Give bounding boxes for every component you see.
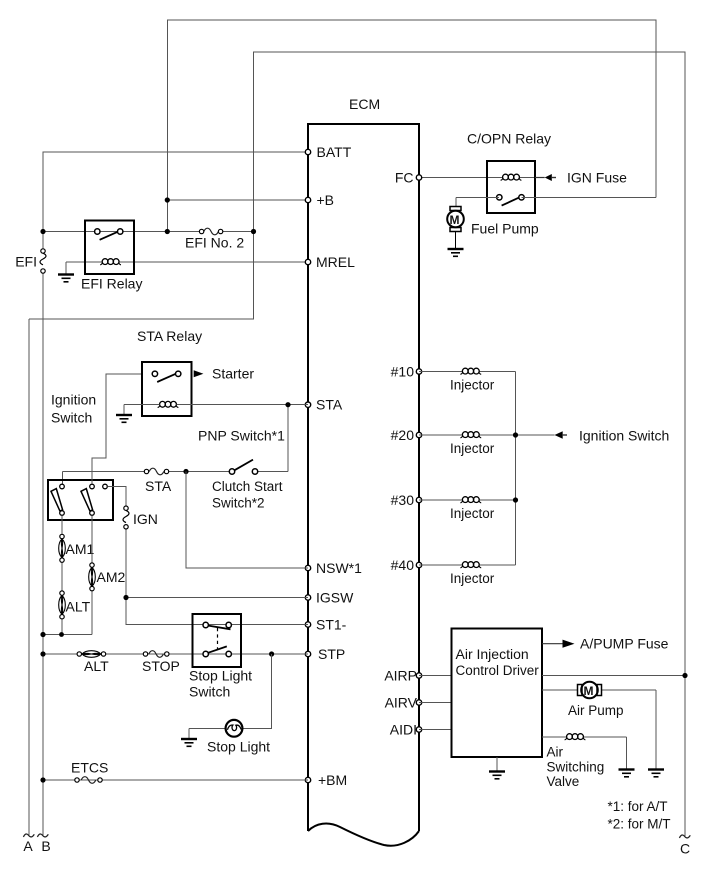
ground AICD — [496, 757, 498, 771]
ground valve — [619, 770, 635, 777]
terminals ECM left — [305, 149, 310, 782]
ground fuel pump — [448, 249, 464, 256]
svg-text:Switch: Switch — [51, 410, 92, 426]
motor Air Pump — [578, 682, 602, 699]
svg-text:M: M — [584, 684, 594, 698]
svg-text:STOP: STOP — [142, 658, 180, 674]
junction IGSW — [123, 595, 128, 600]
wire STA to clutch branch — [287, 405, 289, 472]
relay EFI Relay box — [85, 221, 134, 275]
svg-text:Fuel Pump: Fuel Pump — [471, 221, 539, 237]
wire IGN branch — [107, 487, 308, 625]
wire contacts row to right vertical — [456, 197, 656, 206]
svg-text:A/PUMP Fuse: A/PUMP Fuse — [580, 636, 669, 652]
svg-text:ST1-: ST1- — [316, 617, 347, 633]
terminal labels right — [384, 170, 417, 738]
svg-text:AM2: AM2 — [97, 569, 126, 585]
wire +B — [167, 199, 308, 201]
svg-text:ETCS: ETCS — [71, 760, 108, 776]
svg-text:AM1: AM1 — [66, 541, 95, 557]
ground stop light — [181, 739, 197, 746]
svg-text:Starter: Starter — [212, 366, 254, 382]
svg-text:Ignition Switch: Ignition Switch — [579, 428, 669, 444]
svg-text:FC: FC — [395, 170, 414, 186]
wire AIRP/AIRV/AIDI — [419, 676, 452, 730]
switch Clutch Start — [229, 460, 257, 475]
terminal labels left — [316, 144, 362, 788]
wire top net y=20 from x=167 to x=656 down to C/OPN relay — [167, 20, 656, 232]
svg-text:A: A — [23, 838, 33, 854]
fuse AM1 — [59, 534, 66, 562]
junction STP row — [269, 651, 274, 656]
wire MREL row — [66, 262, 308, 274]
svg-text:AIRP: AIRP — [384, 668, 417, 684]
wire AM2 chain — [91, 515, 93, 634]
svg-text:Switch*2: Switch*2 — [212, 496, 265, 511]
wire AM collector row — [43, 634, 92, 636]
wire coil row — [124, 405, 308, 415]
svg-text:IGN Fuse: IGN Fuse — [567, 170, 627, 186]
ECM box — [307, 124, 420, 846]
svg-text:STA: STA — [145, 478, 172, 494]
svg-text:#30: #30 — [391, 492, 415, 508]
svg-text:ALT: ALT — [84, 658, 109, 674]
svg-text:Control Driver: Control Driver — [456, 663, 540, 678]
wire AM1/ALT chain — [61, 515, 63, 634]
svg-text:ECM: ECM — [349, 96, 380, 112]
wire STA fuse row — [63, 472, 289, 485]
svg-text:C: C — [680, 841, 690, 857]
wire BATT net — [43, 152, 308, 249]
wire FC row — [419, 177, 535, 179]
wire #10 row — [419, 371, 516, 373]
injector coil #30 — [460, 497, 481, 503]
fuse ETCS — [75, 777, 102, 784]
svg-text:Air Injection: Air Injection — [456, 646, 529, 662]
svg-text:NSW*1: NSW*1 — [316, 560, 362, 576]
svg-text:B: B — [41, 838, 50, 854]
junction dots top-left — [40, 197, 256, 234]
fuse ALT (vertical) — [59, 591, 66, 619]
wire B vertical lower — [42, 273, 44, 835]
svg-text:*1: for A/T: *1: for A/T — [608, 799, 668, 814]
terminals ECM right — [416, 175, 421, 732]
svg-text:#20: #20 — [391, 427, 415, 443]
fuse ALT (horizontal) — [77, 651, 106, 658]
fuse EFI No. 2 — [199, 228, 222, 235]
svg-text:IGN: IGN — [133, 511, 158, 527]
wire #40 row — [419, 564, 516, 566]
connector A — [23, 834, 34, 837]
svg-text:Injector: Injector — [450, 571, 495, 586]
wire AIRP output to C — [542, 675, 685, 677]
svg-text:EFI No. 2: EFI No. 2 — [185, 234, 244, 250]
wire ign switch pole2 up — [91, 458, 93, 484]
injector coil #40 — [460, 562, 481, 568]
svg-text:STA Relay: STA Relay — [137, 328, 202, 344]
arrow IGN Fuse — [535, 174, 556, 181]
ground STA relay — [116, 415, 132, 422]
switch Ignition Switch box — [48, 480, 113, 520]
svg-text:Stop Light: Stop Light — [189, 667, 252, 683]
svg-text:Injector: Injector — [450, 441, 495, 456]
switch Stop Light box — [193, 614, 242, 667]
fuse AM2 — [89, 563, 96, 591]
wire NSW — [186, 472, 308, 569]
lamp Stop Light — [226, 720, 243, 737]
wire ETCS row — [43, 779, 308, 781]
connector C — [679, 835, 690, 838]
svg-text:ALT: ALT — [66, 599, 91, 615]
connector B — [37, 834, 48, 837]
junction STA fuse row — [183, 469, 188, 474]
svg-text:IGSW: IGSW — [316, 590, 354, 606]
arrow Ignition Switch — [555, 431, 568, 439]
svg-text:Switching: Switching — [547, 760, 605, 775]
injector coil #10 — [460, 368, 481, 374]
injector coil #20 — [460, 432, 481, 438]
ground air pump — [648, 770, 664, 777]
svg-text:#10: #10 — [391, 364, 415, 380]
svg-text:EFI Relay: EFI Relay — [81, 275, 142, 291]
svg-text:BATT: BATT — [317, 144, 352, 160]
wire injector collector vertical — [515, 372, 517, 566]
svg-text:EFI: EFI — [15, 254, 37, 270]
wire #20 row — [419, 434, 555, 436]
wire #30 row — [419, 499, 516, 501]
fuse STA — [144, 468, 168, 475]
wire air pump row — [542, 690, 656, 769]
coil Air Switching Valve — [565, 734, 586, 740]
svg-text:M: M — [450, 213, 460, 227]
svg-text:Clutch Start: Clutch Start — [212, 479, 283, 494]
svg-text:Switch: Switch — [189, 684, 230, 700]
relay C/OPN box — [487, 161, 535, 213]
svg-text:AIDI: AIDI — [390, 722, 417, 738]
svg-text:#40: #40 — [391, 557, 415, 573]
svg-text:PNP Switch*1: PNP Switch*1 — [198, 428, 285, 444]
wire STP row — [43, 653, 308, 655]
svg-text:AIRV: AIRV — [385, 695, 418, 711]
svg-text:STA: STA — [316, 397, 343, 413]
fuse IGN — [123, 506, 129, 529]
svg-text:Ignition: Ignition — [51, 392, 96, 408]
svg-text:MREL: MREL — [316, 254, 355, 270]
svg-text:Air: Air — [547, 745, 564, 760]
wire to stop light lamp — [242, 654, 272, 728]
svg-text:Injector: Injector — [450, 378, 495, 393]
svg-text:C/OPN Relay: C/OPN Relay — [467, 131, 551, 147]
motor Fuel Pump — [447, 207, 464, 249]
svg-text:+BM: +BM — [318, 772, 347, 788]
relay STA box — [142, 362, 192, 416]
arrow A/PUMP Fuse — [542, 640, 575, 648]
fuse STOP — [143, 651, 169, 658]
svg-text:Injector: Injector — [450, 506, 495, 521]
svg-text:Valve: Valve — [547, 774, 580, 789]
svg-text:STP: STP — [318, 646, 345, 662]
fuse EFI (vertical) — [40, 249, 46, 273]
box Air Injection Control Driver — [452, 629, 543, 758]
svg-text:Air Pump: Air Pump — [568, 703, 624, 718]
wire EFI No.2 row — [43, 231, 254, 233]
wire A vertical — [28, 319, 30, 835]
svg-text:+B: +B — [317, 192, 335, 208]
ground EFI relay — [58, 275, 74, 282]
svg-text:Stop Light: Stop Light — [207, 739, 270, 755]
wire left contact to ignition switch — [92, 374, 142, 484]
svg-text:*2: for M/T: *2: for M/T — [608, 817, 671, 832]
arrow Starter — [194, 366, 255, 382]
wire air switching valve row — [542, 737, 627, 769]
